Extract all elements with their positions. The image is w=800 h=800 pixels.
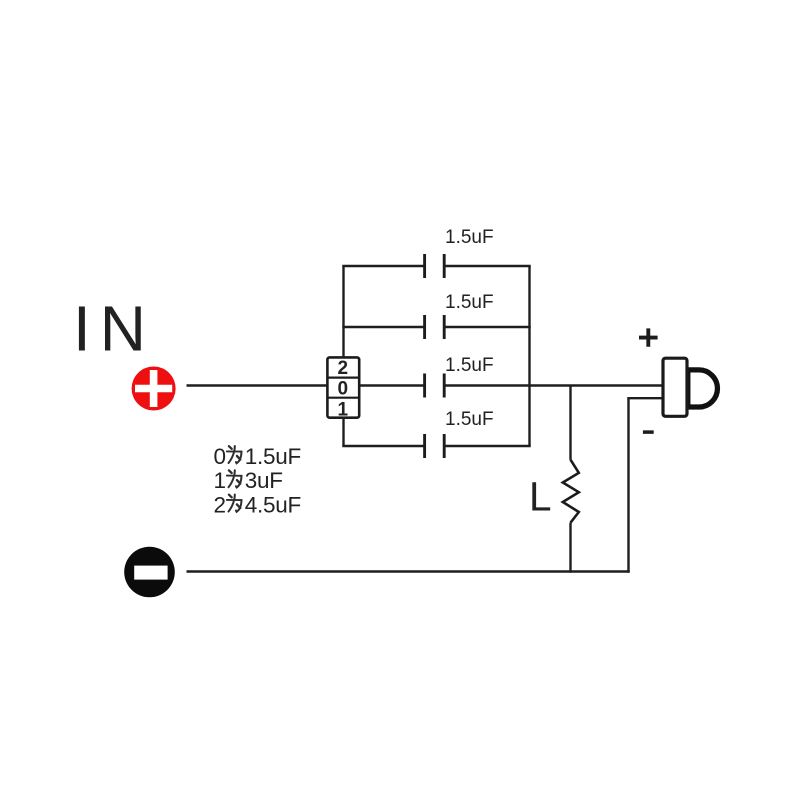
wire row2 left — [342, 326, 424, 328]
svg-text:1.5uF: 1.5uF — [445, 355, 494, 376]
speaker polarity label - — [643, 430, 654, 434]
wire bottom from IN- — [187, 570, 630, 572]
wire speaker negative vertical — [627, 398, 629, 573]
wire row4 right — [444, 445, 531, 447]
wire row2 right — [444, 326, 531, 328]
wire row4 left — [342, 445, 424, 447]
svg-text:3uF: 3uF — [245, 468, 283, 493]
value label L — [529, 474, 552, 520]
value label C3 1.5uF — [445, 355, 494, 376]
wire inductor branch top — [569, 386, 571, 460]
svg-text:1: 1 — [214, 468, 226, 493]
capacitor C3 — [425, 374, 445, 398]
note line3: 2 wei 4.5uF — [214, 492, 301, 517]
label IN — [73, 293, 155, 365]
speaker polarity label + — [639, 328, 658, 346]
speaker LS1 — [663, 358, 717, 416]
switch position label 2 — [338, 358, 349, 379]
wire right bus — [528, 266, 530, 446]
capacitor C2 — [425, 315, 445, 339]
terminal IN- — [124, 547, 175, 598]
svg-text:L: L — [529, 474, 552, 520]
terminal IN+ — [132, 367, 176, 411]
svg-text:4.5uF: 4.5uF — [245, 492, 301, 517]
svg-text:1.5uF: 1.5uF — [245, 444, 301, 469]
value label C2 1.5uF — [445, 292, 494, 313]
wire main C3 to speaker — [444, 384, 663, 386]
wire left bus (switch bottom to row4) — [342, 418, 344, 446]
switch S1 — [327, 357, 359, 417]
svg-text:1: 1 — [338, 399, 349, 420]
wire switch to C3 — [359, 384, 424, 386]
value label C4 1.5uF — [445, 409, 494, 430]
switch position label 0 — [338, 379, 349, 400]
svg-text:2: 2 — [338, 358, 349, 379]
wire row1 left — [342, 265, 424, 267]
inductor L1 — [563, 460, 579, 523]
svg-text:1.5uF: 1.5uF — [445, 409, 494, 430]
wire speaker negative horizontal — [627, 397, 663, 399]
wire IN+ to switch — [187, 384, 328, 386]
svg-text:0: 0 — [338, 379, 349, 400]
svg-text:0: 0 — [214, 444, 226, 469]
svg-text:IN: IN — [73, 293, 155, 365]
capacitor C4 — [425, 434, 445, 458]
svg-text:1.5uF: 1.5uF — [445, 227, 494, 248]
note line2: 1 wei 3uF — [214, 468, 283, 493]
note line1: 0 wei 1.5uF — [214, 444, 301, 469]
wire inductor branch bottom — [569, 523, 571, 573]
value label C1 1.5uF — [445, 227, 494, 248]
wire row1 right — [444, 265, 531, 267]
wire left bus (switch top to row1) — [342, 266, 344, 357]
svg-text:2: 2 — [214, 492, 226, 517]
svg-text:1.5uF: 1.5uF — [445, 292, 494, 313]
switch position label 1 — [338, 399, 349, 420]
capacitor C1 — [425, 254, 445, 278]
